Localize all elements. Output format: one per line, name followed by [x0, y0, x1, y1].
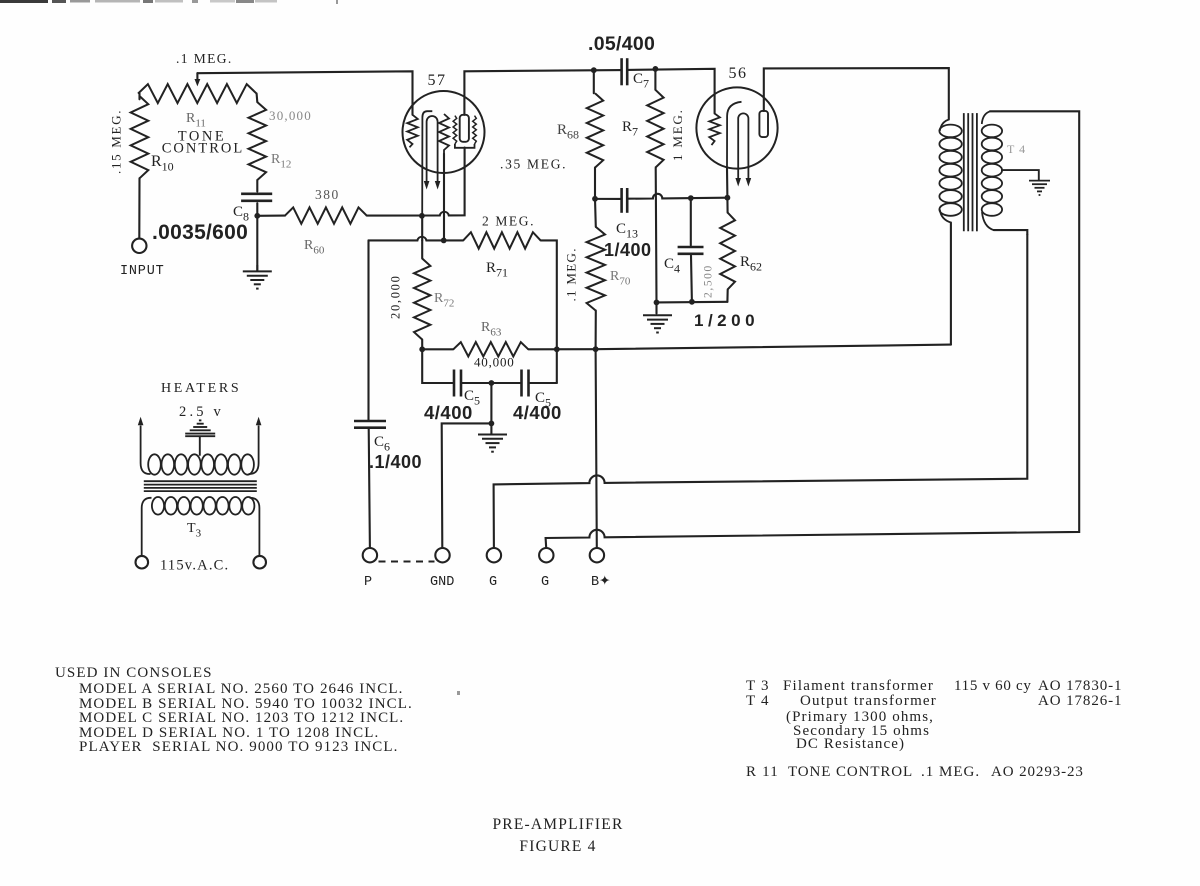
svg-text:GND: GND — [430, 575, 454, 590]
svg-text:.15 MEG.: .15 MEG. — [109, 109, 124, 174]
svg-text:115v.A.C.: 115v.A.C. — [160, 558, 229, 574]
svg-text:1/400: 1/400 — [604, 240, 652, 260]
svg-text:R70: R70 — [610, 269, 631, 288]
svg-text:4/400: 4/400 — [513, 402, 562, 423]
wire R11 right to R12 — [256, 94, 259, 103]
scan artifact top edge — [0, 0, 338, 4]
svg-text:57: 57 — [428, 72, 447, 89]
wire tube 56 plate to T4 primary — [764, 68, 949, 119]
wire C6 to P terminal — [369, 428, 370, 548]
filament transformer T3 — [138, 417, 262, 555]
resistor R68 .35 MEG. — [587, 93, 603, 167]
svg-text:1/200: 1/200 — [694, 311, 759, 330]
wire C4 top lead — [690, 198, 692, 245]
svg-text:30,000: 30,000 — [269, 108, 312, 123]
resistor R63 40,000 — [453, 342, 528, 356]
tube 56 heater — [738, 113, 748, 178]
tube 57 control grid — [407, 115, 418, 148]
svg-text:MODEL A SERIAL NO. 2560 TO 264: MODEL A SERIAL NO. 2560 TO 2646 INCL. — [79, 681, 403, 697]
tube 57 screen grid — [439, 114, 449, 154]
T4 core — [963, 113, 965, 231]
svg-text:R71: R71 — [486, 260, 508, 280]
svg-text:R 11: R 11 — [746, 764, 779, 780]
terminal GND — [435, 548, 449, 562]
svg-text:C6: C6 — [374, 434, 390, 454]
speck artifact — [457, 691, 460, 695]
wire pot wiper to tube 57 grid cap — [197, 71, 412, 115]
svg-text:T 4: T 4 — [1007, 142, 1026, 156]
wire G terminal 1 to T4 secondary bottom — [494, 235, 1028, 549]
T3 core — [144, 480, 257, 482]
resistor R72 20,000 — [414, 259, 430, 340]
tube 57 plate — [460, 115, 469, 142]
svg-text:.0035/600: .0035/600 — [152, 221, 248, 244]
node junction — [592, 196, 598, 202]
T3 terminal left — [136, 556, 149, 569]
resistor R71 2 MEG. — [463, 232, 540, 248]
svg-text:R62: R62 — [740, 254, 762, 274]
svg-text:AO 20293-23: AO 20293-23 — [991, 764, 1084, 780]
wire T4 primary bottom lead — [950, 223, 952, 345]
ground T4 secondary tap — [1001, 170, 1039, 181]
wire tube 57 cathode lead — [421, 216, 423, 241]
wire C5 midpoint to ground — [490, 383, 492, 434]
tube 57 suppressor grid — [453, 116, 457, 144]
dashed link P to GND — [379, 561, 435, 563]
svg-text:380: 380 — [315, 187, 340, 202]
svg-text:FIGURE 4: FIGURE 4 — [519, 838, 596, 855]
terminal G2 — [539, 548, 553, 562]
tube 56 envelope — [696, 87, 777, 168]
svg-text:PRE-AMPLIFIER: PRE-AMPLIFIER — [492, 816, 623, 833]
output transformer T4 — [939, 111, 1002, 231]
wire ground stem mid — [655, 302, 657, 313]
wire R71 right lead down — [541, 240, 557, 383]
ground under C8 — [256, 265, 258, 271]
wire ground branch to GND terminal — [442, 423, 492, 548]
tube 56 control grid — [709, 114, 720, 146]
node junction — [591, 67, 597, 73]
svg-text:Output transformer: Output transformer — [800, 693, 937, 709]
resistor R7 1 MEG. — [647, 90, 663, 168]
wire C4 R62 bottom row — [657, 301, 728, 304]
node junction — [654, 300, 660, 306]
resistor R12 30,000 — [249, 102, 267, 180]
wire tube 57 screen grid lead — [443, 154, 445, 241]
resistor R60 380 — [285, 207, 367, 223]
T4 primary winding — [940, 120, 949, 131]
svg-text:AO 17830-1: AO 17830-1 — [1038, 678, 1122, 694]
node junction — [254, 213, 260, 219]
svg-text:2 MEG.: 2 MEG. — [482, 214, 535, 229]
svg-text:USED IN CONSOLES: USED IN CONSOLES — [55, 665, 213, 681]
svg-text:TONE CONTROL: TONE CONTROL — [788, 764, 913, 780]
svg-text:.1 MEG.: .1 MEG. — [564, 247, 579, 301]
T4 secondary winding — [982, 111, 990, 124]
wire R10 to INPUT terminal — [138, 178, 140, 238]
svg-text:115 v 60 cy: 115 v 60 cy — [954, 678, 1032, 694]
tube 57 heater — [427, 116, 438, 181]
svg-text:G: G — [489, 575, 497, 590]
svg-text:2.5 v: 2.5 v — [179, 404, 224, 420]
svg-text:C4: C4 — [664, 256, 680, 276]
svg-text:R7: R7 — [622, 119, 638, 139]
tube 57 envelope — [403, 91, 485, 173]
svg-text:.1/400: .1/400 — [369, 452, 422, 472]
capacitor C5 left 4/400 — [453, 370, 456, 397]
node junction — [554, 346, 560, 352]
node junction — [419, 213, 425, 219]
svg-text:4/400: 4/400 — [424, 402, 473, 423]
svg-text:B✦: B✦ — [591, 574, 611, 590]
capacitors — [241, 58, 703, 428]
node junction — [689, 299, 695, 305]
resistors — [131, 84, 735, 356]
wire right C5 to R71 vertical — [529, 382, 557, 384]
wire C6 to R71 with hop over cathode — [369, 237, 464, 241]
svg-text:HEATERS: HEATERS — [161, 381, 241, 396]
terminal G1 — [487, 548, 501, 562]
svg-text:C13: C13 — [616, 221, 638, 241]
wire R68 top lead — [593, 70, 595, 93]
wire R72 junction down to C5 row — [422, 349, 454, 383]
tube 57 cathode — [422, 111, 432, 216]
wire R72 bottom lead — [421, 340, 423, 350]
svg-text:1 MEG.: 1 MEG. — [670, 108, 685, 161]
wire R7 bottom to ground — [655, 168, 658, 303]
wire R68-C13 junction to R70 — [594, 199, 597, 227]
grounds — [185, 170, 1050, 456]
wire R12 to C8 — [256, 180, 258, 192]
node junction — [725, 195, 731, 201]
resistor R62 2,500 — [720, 213, 735, 290]
svg-text:MODEL C SERIAL NO. 1203 TO 121: MODEL C SERIAL NO. 1203 TO 1212 INCL. — [79, 710, 404, 726]
T3 heater winding arrows — [138, 417, 144, 426]
svg-text:R68: R68 — [557, 122, 579, 142]
node junction — [653, 66, 659, 72]
svg-text:T 3: T 3 — [746, 678, 770, 694]
svg-text:PLAYER SERIAL NO. 9000 TO 912: PLAYER SERIAL NO. 9000 TO 9123 INCL. — [79, 739, 398, 755]
node junction — [489, 421, 495, 427]
wire R10 to R11 left end — [138, 94, 140, 100]
svg-text:T3: T3 — [187, 521, 202, 540]
R11 wiper arrow — [195, 79, 201, 86]
capacitor C5 right 4/400 — [520, 370, 523, 397]
wire C4 bottom lead — [690, 256, 693, 302]
svg-text:2,500: 2,500 — [703, 264, 715, 298]
wire R11 wiper stem — [196, 73, 198, 79]
svg-text:.35 MEG.: .35 MEG. — [500, 157, 567, 172]
ground T3 center tap (inverted) — [199, 436, 201, 455]
svg-text:T 4: T 4 — [746, 693, 770, 709]
wire grid-leak row to C6 — [367, 240, 369, 421]
wire C7 to tube 56 grid — [627, 69, 714, 114]
wire R60 to tube 57 cathode and suppressor — [257, 215, 285, 217]
wire C13 row — [595, 168, 622, 199]
terminal B+ — [590, 548, 604, 562]
svg-text:20,000: 20,000 — [389, 274, 403, 319]
svg-text:.1 MEG.: .1 MEG. — [921, 764, 980, 780]
resistor R10 .15 MEG. — [131, 96, 149, 178]
wire R62 top lead — [726, 198, 728, 213]
ground under C5 midpoint — [478, 434, 507, 436]
wire tube 56 cathode lead — [726, 169, 729, 198]
svg-text:R12: R12 — [271, 152, 291, 171]
capacitor C4 — [678, 246, 704, 249]
wire C8 to junction and ground — [256, 203, 258, 270]
node junction — [489, 380, 495, 386]
T3 terminal right — [253, 556, 266, 569]
capacitor C6 .1/400 — [354, 420, 386, 423]
T3 heater winding (secondary 2.5v) — [141, 426, 151, 475]
capacitor C7 .05/400 — [620, 58, 623, 85]
svg-text:G: G — [541, 575, 549, 590]
svg-text:R60: R60 — [304, 238, 325, 257]
svg-text:CONTROL: CONTROL — [162, 141, 244, 157]
node junction — [441, 238, 447, 244]
svg-text:Filament transformer: Filament transformer — [783, 678, 934, 694]
wire tube 57 plate to C7 — [464, 70, 621, 115]
node junction — [593, 346, 599, 352]
svg-text:56: 56 — [729, 65, 748, 82]
wire R70 bottom lead — [595, 311, 597, 350]
wire G terminal 2 to T4 secondary top — [546, 111, 1080, 548]
INPUT terminal — [132, 239, 146, 253]
terminal P — [363, 548, 377, 562]
svg-text:.1 MEG.: .1 MEG. — [176, 51, 233, 66]
svg-text:C7: C7 — [633, 71, 649, 91]
wire T4 secondary bottom lead — [994, 230, 1028, 234]
wire B+ riser — [596, 349, 597, 548]
wire cathode line to R72 — [421, 240, 423, 258]
resistor R70 .1 MEG. — [587, 227, 605, 311]
tube 56 cathode — [727, 102, 742, 169]
capacitor C8 .0035/600 — [241, 193, 272, 196]
svg-text:.05/400: .05/400 — [588, 33, 655, 55]
svg-text:DC Resistance): DC Resistance) — [796, 736, 905, 752]
wire R62 bottom lead — [726, 289, 728, 301]
capacitor C13 1/400 — [620, 188, 623, 213]
T3 primary winding 115v — [142, 498, 152, 555]
node junction — [688, 195, 694, 201]
svg-text:R11: R11 — [186, 111, 206, 130]
potentiometer R11 .1 MEG. body — [138, 84, 257, 103]
ground under R7/C4 row — [643, 314, 672, 316]
svg-text:INPUT: INPUT — [120, 264, 165, 279]
svg-text:P: P — [364, 575, 372, 590]
svg-text:AO 17826-1: AO 17826-1 — [1038, 693, 1122, 709]
svg-text:40,000: 40,000 — [474, 355, 515, 370]
node junction — [419, 346, 425, 352]
wire R7 top lead — [654, 69, 656, 90]
tube 56 plate — [759, 111, 768, 137]
svg-text:R63: R63 — [481, 320, 502, 339]
wire between C5 capacitors — [461, 382, 522, 384]
tubes — [403, 87, 778, 215]
svg-text:R72: R72 — [434, 291, 454, 310]
wire R63 row — [422, 348, 453, 350]
